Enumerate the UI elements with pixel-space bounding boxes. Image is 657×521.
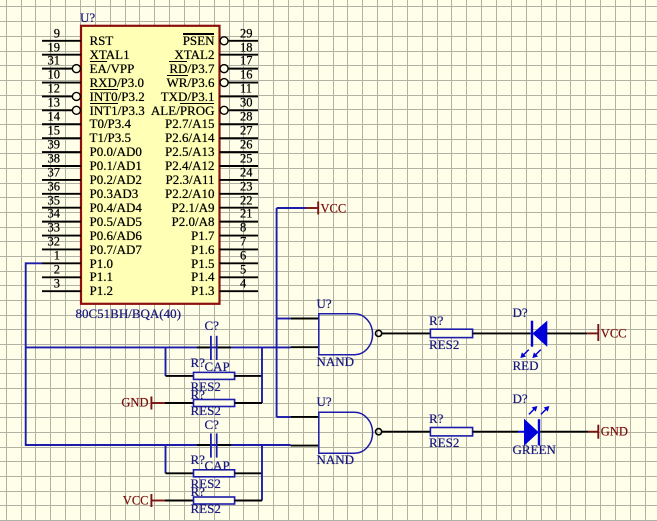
pin number 2 [0,264,60,277]
pin name for 28 [15,118,215,131]
pin name for 8 [15,229,215,242]
value CAP (bottom) [205,459,230,472]
wire from pin 1 P1.0 [26,262,42,264]
pin number 5 [240,264,246,277]
LED GREEN arrow 2 [541,409,546,414]
designator R? (R4) [429,412,443,425]
pin name for 32 [90,243,142,256]
pin name for 1 [90,257,113,270]
wire LED GREEN to GND [540,431,588,433]
pin number 21 [240,208,253,221]
pin name for 38 [90,159,142,172]
pin name for 15 [90,131,132,144]
pin name for 35 [90,201,142,214]
designator D? (RED) [513,306,528,319]
designator U? (chip) [80,11,95,24]
value CAP (top) [205,360,230,373]
pin name for 37 [90,173,142,186]
pin 12 stub (left) [42,95,72,97]
pin number 17 [240,55,253,68]
pin name for 6 [15,257,215,270]
overline bar [183,33,215,34]
power port VCC (right) [587,332,598,334]
designator R? (R5) [191,453,205,466]
power port GND (left) [150,397,152,410]
pin 31 stub (left) [42,68,72,70]
pin number 9 [0,27,60,40]
pin name for 3 [90,284,113,297]
pin number 1 [0,250,60,263]
wire R4 to LED D? GREEN [473,431,518,433]
pin 23 stub (right) [220,193,259,195]
pin name for 14 [90,118,132,131]
resistor R2 body RES2 [194,400,235,407]
pin number 6 [240,250,246,263]
overline bar [90,61,107,62]
pin number 23 [240,180,253,193]
pin 21 stub (right) [220,221,259,223]
GND label (right port) [601,425,628,438]
pin number 27 [240,124,253,137]
wire R3 to LED D? RED [473,332,531,334]
overline bar [90,103,118,104]
pin 32 stub (left) [42,248,81,250]
pin 7 stub (right) [220,248,259,250]
pin number 22 [240,194,253,207]
pin 39 stub (left) [42,151,81,153]
pin 35 stub (left) [42,207,81,209]
pin name for 27 [15,131,215,144]
pin number 3 [0,277,60,290]
power port GND (right) [588,431,598,433]
wire A to NAND1 input B [26,346,291,348]
value GREEN [513,443,556,456]
NAND1 input B stub [291,346,319,348]
pin 1 stub (left) [42,262,81,264]
pin number 18 [240,41,253,54]
pin number 4 [240,277,246,290]
pin 36 stub (left) [42,193,81,195]
pin name for 26 [15,145,215,158]
designator D? (GREEN) [513,392,528,405]
resistor R2 GND row [165,402,194,404]
capacitor C? (bottom) [197,444,210,446]
pin number 29 [240,27,253,40]
LED RED arrow 2 [535,350,540,355]
pin name for 12 [90,90,145,103]
pin 11 stub (right) [220,95,259,97]
pin 16 stub (right) [228,82,258,84]
pin 17 stub (right) [228,68,258,70]
pin name for 30 [15,104,215,117]
resistor R5 right lead [235,472,262,474]
pin name for 16 [15,76,215,89]
power port VCC (bottom-left) [150,494,152,507]
NAND2 input A stub [291,416,319,418]
NAND1 output bubble [376,330,382,336]
pin 30 bubble [220,106,228,114]
pin number 26 [240,138,253,151]
pin 15 stub (left) [42,137,81,139]
resistor R3 body RES2 [430,329,472,337]
designator R? (R6) [191,485,205,498]
pin number 36 [0,180,60,193]
pin 2 stub (left) [42,276,81,278]
designator R? (R1) [191,356,205,369]
pin number 32 [0,236,60,249]
pin 30 stub (right) [228,109,258,111]
LED GREEN cathode bar [538,419,540,445]
pin name for 17 [15,62,215,75]
value RES2 (R1) [191,380,221,393]
pin 22 stub (right) [220,207,259,209]
resistor R1 right lead [235,375,262,377]
overline bar [169,61,187,62]
overline bar [180,103,215,104]
value RED [513,359,539,372]
pin number 38 [0,152,60,165]
pin name for 11 [15,90,215,103]
designator C? (top) [205,319,219,332]
pin 19 stub (left) [42,54,81,56]
value RES2 (R6) [191,502,221,515]
resistor R5 left lead [166,472,194,474]
pin name for 23 [15,187,215,200]
LED RED arrow 1 [523,350,528,355]
NAND1 output wire [382,332,431,334]
pin 37 stub (left) [42,179,81,181]
pin number 8 [240,222,246,235]
NAND2 output wire [382,431,431,433]
LED RED triangle [533,322,547,346]
NAND1 input A stub [291,318,319,320]
pin name for 25 [15,159,215,172]
designator R? (R3) [429,314,443,327]
LED GREEN anode lead [518,431,525,433]
pin number 33 [0,222,60,235]
pin number 24 [240,166,253,179]
NAND2 input B stub [291,445,319,447]
pin 24 stub (right) [220,179,259,181]
pin 12 bubble [72,92,80,100]
pin name for 5 [15,271,215,284]
pin name for 10 [90,76,145,89]
resistor R1 body RES2 [194,372,235,379]
pin number 13 [0,97,60,110]
pin 17 bubble [220,65,228,73]
pin name for 39 [90,145,142,158]
overline bar [90,89,118,90]
NAND2 output bubble [376,429,382,435]
pin name for 34 [90,215,142,228]
resistor R1 loop vertical [165,347,167,376]
pin 27 stub (right) [220,137,259,139]
wire LED RED to VCC [547,332,587,334]
pin 4 stub (right) [220,290,259,292]
pin 29 bubble [220,37,228,45]
pin name for 36 [90,187,139,200]
value RES2 (R5) [191,477,221,490]
pin number 25 [240,152,253,165]
pin 34 stub (left) [42,221,81,223]
pin name for 21 [15,215,215,228]
resistor R1 left lead [166,375,194,377]
VCC label (bottom-left port) [0,494,149,507]
pin name for 4 [15,284,215,297]
value RES2 (R2) [191,404,221,417]
wire to VCC port [277,207,306,209]
pin name for 24 [15,173,215,186]
GND label (left port) [0,397,149,410]
wire B to NAND2 input B [26,444,291,446]
pin name for 29 [15,34,215,47]
wire right side of RC loop (bottom) [261,445,263,501]
pin name for 33 [90,229,142,242]
capacitor C? (top) [197,346,210,348]
pin 26 stub (right) [220,151,259,153]
IC U? 80C51 microcontroller body [81,26,220,304]
pin 33 stub (left) [42,235,81,237]
NAND1 body [319,314,373,355]
LED GREEN arrow 1 [529,409,534,414]
wire VCC bus vertical [276,208,278,417]
pin number 39 [0,138,60,151]
LED GREEN triangle [525,420,538,445]
resistor R6 right lead [235,500,262,502]
pin name for 18 [15,48,215,61]
pin number 15 [0,124,60,137]
pin 13 stub (left) [42,109,72,111]
designator U? (NAND1) [317,297,332,310]
pin 9 stub (left) [42,40,81,42]
pin 16 bubble [220,79,228,87]
pin number 19 [0,41,60,54]
pin 29 stub (right) [228,40,258,42]
pin 38 stub (left) [42,165,81,167]
power port VCC (top) [306,207,318,209]
pin number 7 [240,236,246,249]
NAND2 body [319,412,373,453]
overline bar [167,75,188,76]
pin 28 stub (right) [220,123,259,125]
wire vertical left bus [25,262,27,446]
value NAND (NAND1) [317,355,355,368]
pin number 10 [0,69,60,82]
value RES2 (R4) [429,436,459,449]
pin 13 bubble [72,106,80,114]
pin name for 19 [90,48,130,61]
wire right side of RC loop (top) [261,347,263,403]
LED RED cathode bar [531,321,533,347]
pin 18 stub (right) [220,54,259,56]
pin 8 stub (right) [220,235,259,237]
resistor R4 body RES2 [430,428,472,436]
pin 14 stub (left) [42,123,81,125]
resistor R5 loop vertical [165,445,167,473]
designator R? (R2) [191,388,205,401]
pin number 30 [240,97,253,110]
pin name for 7 [15,243,215,256]
resistor R6 VCC row [165,500,194,502]
pin 3 stub (left) [42,290,81,292]
designator U? (NAND2) [317,395,332,408]
value label 80C51BH/BQA(40) [76,307,181,320]
pin number 16 [240,69,253,82]
pin number 28 [240,111,253,124]
pin name for 9 [90,34,114,47]
pin 31 bubble [72,65,80,73]
pin number 34 [0,208,60,221]
VCC label (top port) [321,202,347,215]
pin 5 stub (right) [220,276,259,278]
pin number 35 [0,194,60,207]
pin number 12 [0,83,60,96]
pin name for 22 [15,201,215,214]
resistor R5 body RES2 [194,470,235,477]
pin name for 31 [90,62,135,75]
pin number 37 [0,166,60,179]
designator C? (bottom) [205,418,219,431]
pin 6 stub (right) [220,262,259,264]
VCC label (right port) [601,327,627,340]
pin 10 stub (left) [42,82,81,84]
pin number 14 [0,111,60,124]
value NAND (NAND2) [317,453,355,466]
pin number 11 [240,83,252,96]
resistor R6 body RES2 [194,497,235,504]
pin name for 13 [90,104,145,117]
value RES2 (R3) [429,338,459,351]
wire to NAND2 input A [277,416,291,418]
pin name for 2 [90,271,113,284]
wire to NAND1 input A [277,318,291,320]
pin number 31 [0,55,60,68]
resistor R2 right lead [235,402,262,404]
pin 25 stub (right) [220,165,259,167]
